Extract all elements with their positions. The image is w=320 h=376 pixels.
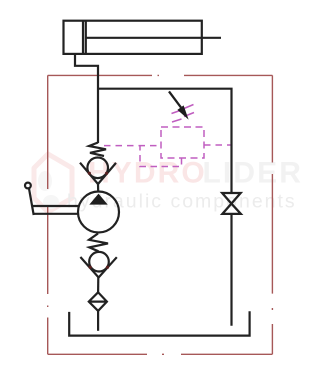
tank T1 — [69, 311, 249, 335]
outlet line to right branch — [204, 144, 232, 146]
svg-text:LIDER: LIDER — [203, 157, 304, 190]
check valve CV1 seat — [80, 163, 116, 184]
watermark logo hexagon — [34, 154, 72, 212]
drain loop line — [140, 146, 182, 167]
hand pump flow triangle — [89, 194, 107, 205]
filter F1 — [89, 292, 107, 311]
hand pump P1 body — [78, 192, 119, 233]
check valve CV2 ball — [89, 252, 109, 272]
wire filter to tank — [97, 311, 99, 331]
red dashed enclosure border — [48, 75, 273, 354]
wire CV1 to pump — [97, 184, 99, 192]
wire branch to right leg — [98, 89, 232, 193]
check valve CV2 spring — [89, 234, 108, 252]
shut-off valve V2 (bowtie) — [222, 193, 241, 214]
pilot line from pump outlet — [104, 145, 161, 147]
wire CV2 to filter — [97, 278, 99, 293]
adjustment arrow of relief valve — [169, 91, 189, 119]
relief valve body box — [161, 127, 204, 158]
hand pump lever knob — [25, 183, 31, 189]
cylinder rod — [86, 37, 221, 39]
relief valve spring dashes — [172, 105, 195, 123]
poppet seat junction dots — [88, 172, 109, 269]
check valve CV2 seat — [80, 257, 116, 278]
watermark text HYDROLIDER — [88, 157, 303, 190]
cylinder piston — [83, 21, 86, 54]
check valve CV1 ball — [87, 158, 108, 179]
cylinder C1 barrel — [64, 21, 222, 54]
check valve CV1 spring — [89, 143, 106, 157]
relief valve V1 (magenta dashed, optional) — [104, 105, 232, 167]
wire right leg lower — [230, 214, 232, 326]
wire from cylinder cap to node A — [75, 54, 98, 143]
hand pump lever arm — [29, 189, 79, 216]
